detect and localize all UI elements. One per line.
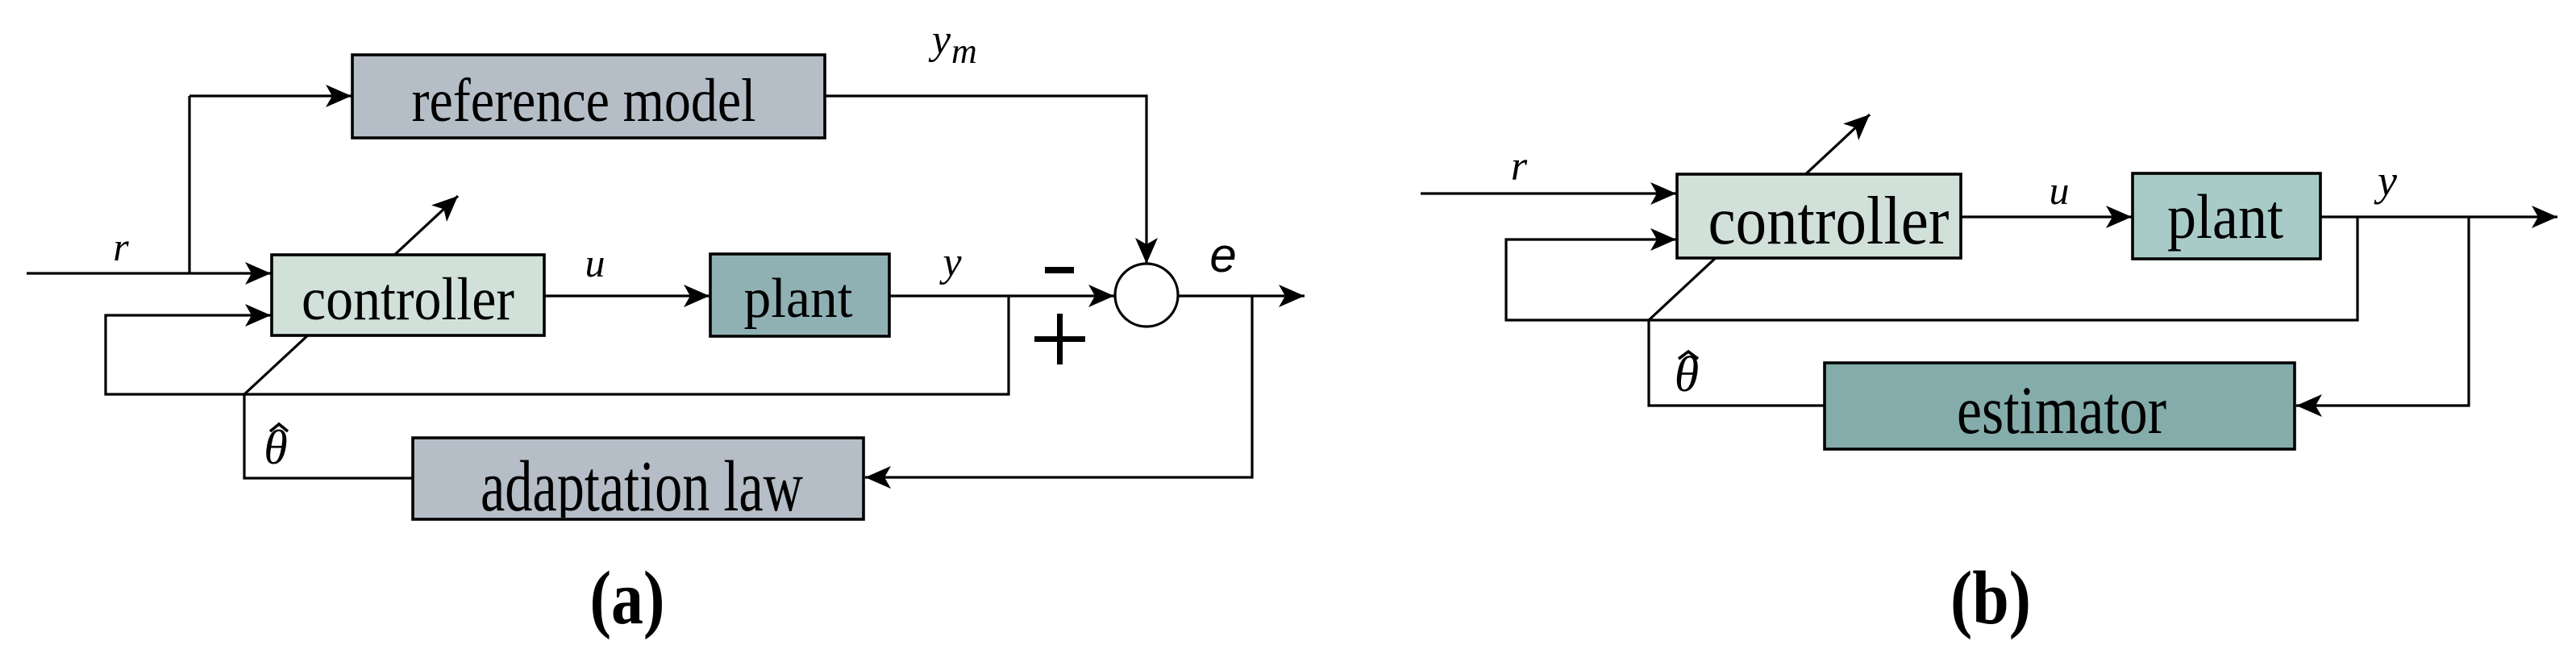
block reference model xyxy=(352,55,825,138)
wire u controller to plant (b) xyxy=(1961,215,2132,218)
block plant (a) xyxy=(710,254,889,336)
wire r input xyxy=(27,272,271,274)
svg-text:u: u xyxy=(585,240,606,285)
adaptive diagonal arrow through controller xyxy=(244,196,458,394)
svg-text:e: e xyxy=(1209,228,1236,282)
svg-text:y: y xyxy=(2374,156,2397,205)
wire y to estimator (b) xyxy=(2296,217,2469,406)
svg-text:controller: controller xyxy=(302,266,514,333)
adaptive diagonal arrow through controller (b) xyxy=(1649,114,1870,320)
minus sign xyxy=(1045,267,1074,273)
svg-text:plant: plant xyxy=(2167,181,2283,252)
label theta-hat (a) xyxy=(264,421,288,474)
svg-text:estimator: estimator xyxy=(1957,373,2166,448)
block plant (b) xyxy=(2133,173,2320,259)
wire u controller to plant xyxy=(544,294,710,297)
svg-text:r: r xyxy=(113,224,129,269)
wire r input (b) xyxy=(1421,192,1676,194)
wire e output from summer xyxy=(1178,294,1305,297)
svg-text:m: m xyxy=(951,31,977,71)
node r branch xyxy=(188,96,190,273)
svg-text:(a): (a) xyxy=(590,556,665,640)
block controller (a) xyxy=(272,255,544,335)
svg-text:controller: controller xyxy=(1708,183,1950,259)
wire to reference model xyxy=(189,94,352,97)
wire y plant output (b) xyxy=(2320,215,2557,218)
wire estimator output theta (b) xyxy=(1649,320,1825,406)
wire y plant to summer xyxy=(889,294,1114,297)
svg-text:y: y xyxy=(928,17,951,63)
block controller (b) xyxy=(1677,174,1961,259)
wire e to adaptation law xyxy=(865,296,1252,477)
svg-text:r: r xyxy=(1511,144,1528,189)
svg-text:plant: plant xyxy=(744,268,854,330)
block adaptation law xyxy=(413,438,864,527)
svg-text:(b): (b) xyxy=(1950,556,2031,640)
svg-text:adaptation law: adaptation law xyxy=(481,447,803,527)
wire adaptation output theta xyxy=(244,394,413,478)
wire ym from reference model xyxy=(825,96,1147,264)
summer circle xyxy=(1115,264,1178,327)
svg-text:y: y xyxy=(938,239,962,285)
label theta-hat (b) xyxy=(1675,348,1699,402)
block estimator xyxy=(1825,363,2295,449)
svg-text:reference model: reference model xyxy=(412,67,756,135)
wire feedback y to controller xyxy=(106,296,1009,394)
svg-text:u: u xyxy=(2050,168,2070,213)
wire feedback to controller (b) xyxy=(1506,217,2358,320)
plus sign xyxy=(1034,314,1085,364)
